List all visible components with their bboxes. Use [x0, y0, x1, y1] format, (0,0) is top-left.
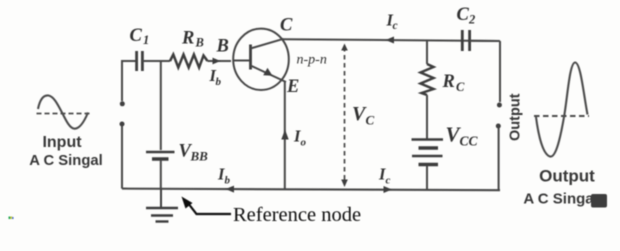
svg-text:C: C [280, 16, 293, 36]
svg-text:CC: CC [460, 134, 479, 149]
label VCC [446, 123, 479, 149]
wire: RC branch from top rail [426, 40, 428, 64]
battery VCC [412, 140, 444, 165]
wire: emitter vertical to bottom rail [284, 82, 286, 189]
resistor RC [421, 64, 434, 95]
svg-text:C: C [456, 80, 465, 94]
label Output AC Singal (right) [523, 167, 595, 208]
node: input port lower terminal dot [120, 122, 125, 127]
svg-text:E: E [286, 77, 299, 97]
svg-text:Output: Output [539, 167, 595, 186]
arrowhead Ic on bottom rail (pointing right) [384, 186, 393, 193]
label C2 [457, 5, 476, 27]
svg-text:C: C [130, 26, 143, 46]
wire: left vertical lower segment to ground rail [121, 126, 123, 189]
transistor base bar [249, 45, 252, 70]
scan artifact color speck [9, 217, 14, 220]
svg-text:c: c [386, 175, 391, 187]
capacitor C1 [137, 51, 143, 71]
svg-text:B: B [216, 37, 229, 57]
wire: C2 to right corner [470, 40, 500, 42]
arrowhead Ib into base [213, 58, 221, 65]
wire: top rail from collector to right corner [284, 39, 501, 41]
label Ib (bottom rail) [217, 165, 231, 187]
wire: VBB branch vertical [160, 61, 162, 150]
ink smudge on Singal [591, 194, 607, 208]
svg-text:n-p-n: n-p-n [297, 53, 327, 68]
svg-text:BB: BB [190, 149, 209, 164]
label RC [442, 72, 466, 94]
emitter arrowhead [263, 68, 272, 76]
wire: bottom rail [122, 189, 500, 191]
wire: left vertical upper segment (input port) [121, 61, 123, 101]
svg-text:b: b [216, 76, 222, 88]
svg-text:A C Singa: A C Singa [523, 191, 594, 208]
wire: RC to VCC [426, 95, 428, 139]
svg-text:C: C [457, 5, 470, 25]
dashed measurement arrow VC [344, 47, 346, 181]
transistor collector lead [251, 39, 284, 49]
label C1 [130, 26, 150, 47]
svg-text:A C Singal: A C Singal [29, 153, 102, 169]
label RB [181, 29, 204, 50]
ground (reference node) [146, 189, 178, 222]
output signal sine wave [534, 62, 589, 156]
wire: C1 to RB with junction at VBB branch [142, 60, 170, 62]
label VBB [179, 142, 209, 164]
wire: base lead inside circle [233, 60, 250, 62]
label Ib (base current) [209, 66, 222, 88]
wire: right vertical upper segment (output port) [499, 41, 501, 102]
node: output port lower terminal dot [496, 124, 501, 129]
svg-text:2: 2 [468, 13, 475, 27]
wire: RB to base with arrow [208, 60, 232, 62]
node: output port upper terminal dot [497, 103, 502, 108]
label Io [293, 127, 307, 149]
svg-text:1: 1 [143, 33, 149, 47]
wire: right vertical lower segment [498, 128, 500, 190]
label Ic (top) [386, 11, 398, 33]
resistor RB [170, 55, 208, 68]
svg-text:Output: Output [508, 93, 524, 141]
svg-text:Reference node: Reference node [233, 204, 361, 226]
svg-text:o: o [301, 137, 307, 149]
arrowhead Ic on top rail (pointing left) [386, 37, 395, 44]
svg-text:R: R [442, 72, 455, 92]
svg-text:C: C [366, 113, 375, 128]
wire: input top horizontal to C1 [121, 60, 136, 62]
svg-text:Input: Input [42, 134, 82, 151]
label VC [352, 103, 375, 128]
svg-text:b: b [225, 175, 231, 187]
transistor emitter lead [251, 66, 287, 83]
annotation arrow to reference node [186, 201, 231, 215]
arrowhead Io (pointing up) [281, 130, 288, 140]
arrowhead Ib on bottom rail (pointing left) [226, 186, 235, 193]
label Ic (bottom rail) [378, 165, 391, 187]
svg-text:c: c [393, 20, 398, 32]
svg-text:R: R [181, 29, 194, 49]
svg-text:B: B [195, 36, 204, 50]
node: input port upper terminal dot [120, 101, 125, 106]
transistor Q1 circle [233, 29, 289, 90]
wire: VBB to bottom rail [160, 160, 162, 189]
wire: VCC to bottom rail [426, 166, 428, 190]
battery VBB [146, 152, 175, 159]
capacitor C2 [462, 30, 469, 51]
input signal sine wave [37, 95, 92, 128]
label Input AC Singal (left) [29, 134, 102, 169]
